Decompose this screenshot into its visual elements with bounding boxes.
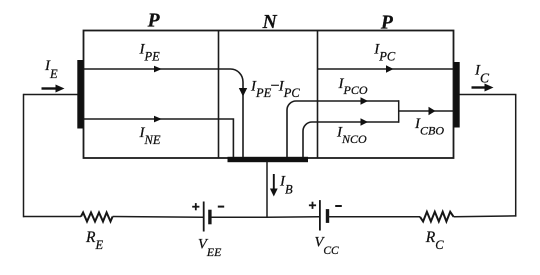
svg-text:IB: IB bbox=[279, 174, 293, 197]
svg-text:IPE: IPE bbox=[139, 42, 161, 64]
annotation arrow I_C bbox=[472, 84, 494, 92]
svg-text:RE: RE bbox=[85, 229, 103, 252]
wire base node to V_CC bbox=[267, 216, 319, 219]
svg-text:IC: IC bbox=[474, 63, 490, 86]
arrowhead I_CBO bbox=[429, 107, 436, 115]
svg-text:IPCO: IPCO bbox=[338, 76, 368, 97]
svg-text:VEE: VEE bbox=[198, 237, 222, 260]
current path I_CBO to collector bar bbox=[399, 110, 454, 112]
arrowhead I_PE minus I_PC (down) bbox=[239, 88, 247, 97]
annotation arrow I_B (down) bbox=[270, 174, 278, 197]
wire right vertical bbox=[515, 95, 517, 217]
annotation arrow I_E bbox=[42, 85, 65, 93]
arrowhead I_PCO bbox=[361, 97, 369, 105]
wire I_E input bbox=[24, 94, 78, 96]
junction divider 2 (N/P boundary) bbox=[317, 31, 319, 159]
svg-text:P: P bbox=[380, 13, 394, 34]
current path I_NE with turn down to base bar bbox=[84, 119, 233, 157]
transistor body outline bbox=[84, 31, 454, 159]
wire R_E to V_EE bbox=[113, 216, 204, 219]
svg-text:ICBO: ICBO bbox=[414, 116, 444, 137]
arrowhead I_PC bbox=[386, 65, 394, 73]
wire bottom left segment bbox=[24, 216, 82, 218]
wire I_C output bbox=[460, 94, 517, 96]
svg-text:INCO: INCO bbox=[336, 125, 367, 146]
svg-text:RC: RC bbox=[425, 229, 444, 252]
svg-text:P: P bbox=[147, 11, 161, 32]
battery V_CC plus sign bbox=[309, 202, 316, 209]
resistor R_E bbox=[81, 213, 113, 222]
current path I_PC bbox=[318, 68, 454, 70]
collector contact bar bbox=[454, 62, 460, 128]
battery V_EE plus sign bbox=[192, 203, 199, 210]
battery V_EE long plate bbox=[203, 202, 205, 232]
wire V_CC to R_C bbox=[327, 216, 420, 218]
wire left vertical bbox=[23, 94, 25, 218]
junction vertical at merge node bbox=[398, 100, 400, 123]
wire R_C to right corner bbox=[454, 215, 517, 218]
svg-text:VCC: VCC bbox=[315, 235, 340, 258]
current path I_PE with curve down into base bbox=[84, 69, 243, 157]
junction divider 1 (P/N boundary) bbox=[218, 31, 220, 159]
svg-text:IPE–IPC: IPE–IPC bbox=[250, 77, 300, 100]
resistor R_C bbox=[420, 212, 454, 222]
svg-text:INE: INE bbox=[139, 125, 161, 147]
arrowhead I_PE bbox=[154, 66, 162, 73]
base wire down from base bar bbox=[266, 162, 268, 218]
current path I_PCO from base bar up and right bbox=[287, 101, 399, 157]
emitter contact bar bbox=[77, 60, 83, 129]
arrowhead I_NE bbox=[154, 116, 162, 123]
current path I_NCO from base bar up and right bbox=[303, 122, 399, 157]
battery V_CC long plate bbox=[319, 200, 321, 230]
battery V_CC short plate bbox=[326, 209, 329, 223]
svg-text:IPC: IPC bbox=[373, 42, 396, 64]
battery V_EE minus sign bbox=[218, 206, 224, 208]
wire V_EE to base node bbox=[211, 216, 268, 218]
svg-text:IE: IE bbox=[44, 58, 58, 81]
battery V_EE short plate bbox=[208, 210, 211, 225]
base contact bar bbox=[228, 157, 309, 162]
arrowhead I_NCO bbox=[361, 118, 369, 126]
battery V_CC minus sign bbox=[335, 205, 342, 207]
svg-text:N: N bbox=[262, 12, 278, 33]
